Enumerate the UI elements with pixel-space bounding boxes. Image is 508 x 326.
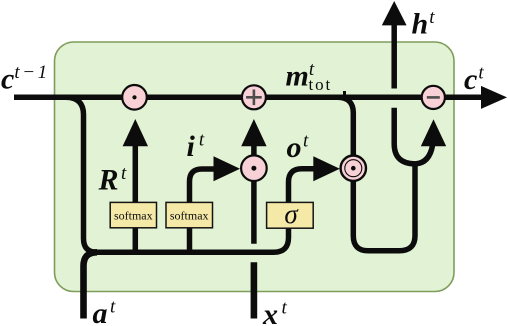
arrowhead up into ominus: [421, 119, 446, 146]
wire: a^t input tail: [84, 252, 98, 318]
op: circled dot 2 (i gate): [241, 155, 267, 181]
box: sigma (o gate): [267, 202, 314, 228]
wire: bottom U from otimes to fork stem: [353, 164, 415, 251]
svg-text:σ: σ: [284, 199, 299, 229]
wire: output c arrowhead: [481, 86, 507, 109]
wire: fork right leg up to minus: [415, 141, 433, 164]
arrowhead h^t output: [382, 1, 407, 25]
wire: h line above c line: [391, 24, 397, 89]
wire: fork left leg up (h line below c line): [394, 108, 415, 164]
svg-text:softmax: softmax: [170, 209, 209, 223]
arrowhead up into odot1: [123, 119, 148, 146]
wire: i gate vertical with bend: [190, 169, 223, 252]
wire: sigma arrowhead into odot: [313, 156, 340, 181]
arrowhead right into odot2: [214, 156, 241, 181]
wire: main c line: [14, 95, 484, 101]
op: circled plus on c line: [242, 85, 266, 109]
wire: x column up through odot2 to oplus: [251, 141, 257, 244]
wire: R gate vertical: [133, 141, 139, 252]
wire: x^t input tail: [251, 262, 258, 318]
op: double-ring circled dot (o gate): [341, 156, 366, 181]
svg-text:tot: tot: [309, 75, 333, 94]
op: circled minus on c line: [422, 86, 445, 109]
junction tick near m_tot: [343, 91, 346, 97]
op: circled dot 1 on c line: [122, 85, 147, 110]
arrowhead up into oplus: [241, 119, 266, 146]
box: softmax (i gate): [166, 202, 213, 227]
wire: branch from c line down to bus (left): [66, 97, 322, 252]
svg-text:softmax: softmax: [114, 209, 153, 223]
wire: branch from c line down to otimes (m_tot): [338, 97, 354, 156]
cell body (green rounded box): [55, 42, 455, 292]
box: softmax (R gate): [110, 202, 156, 227]
